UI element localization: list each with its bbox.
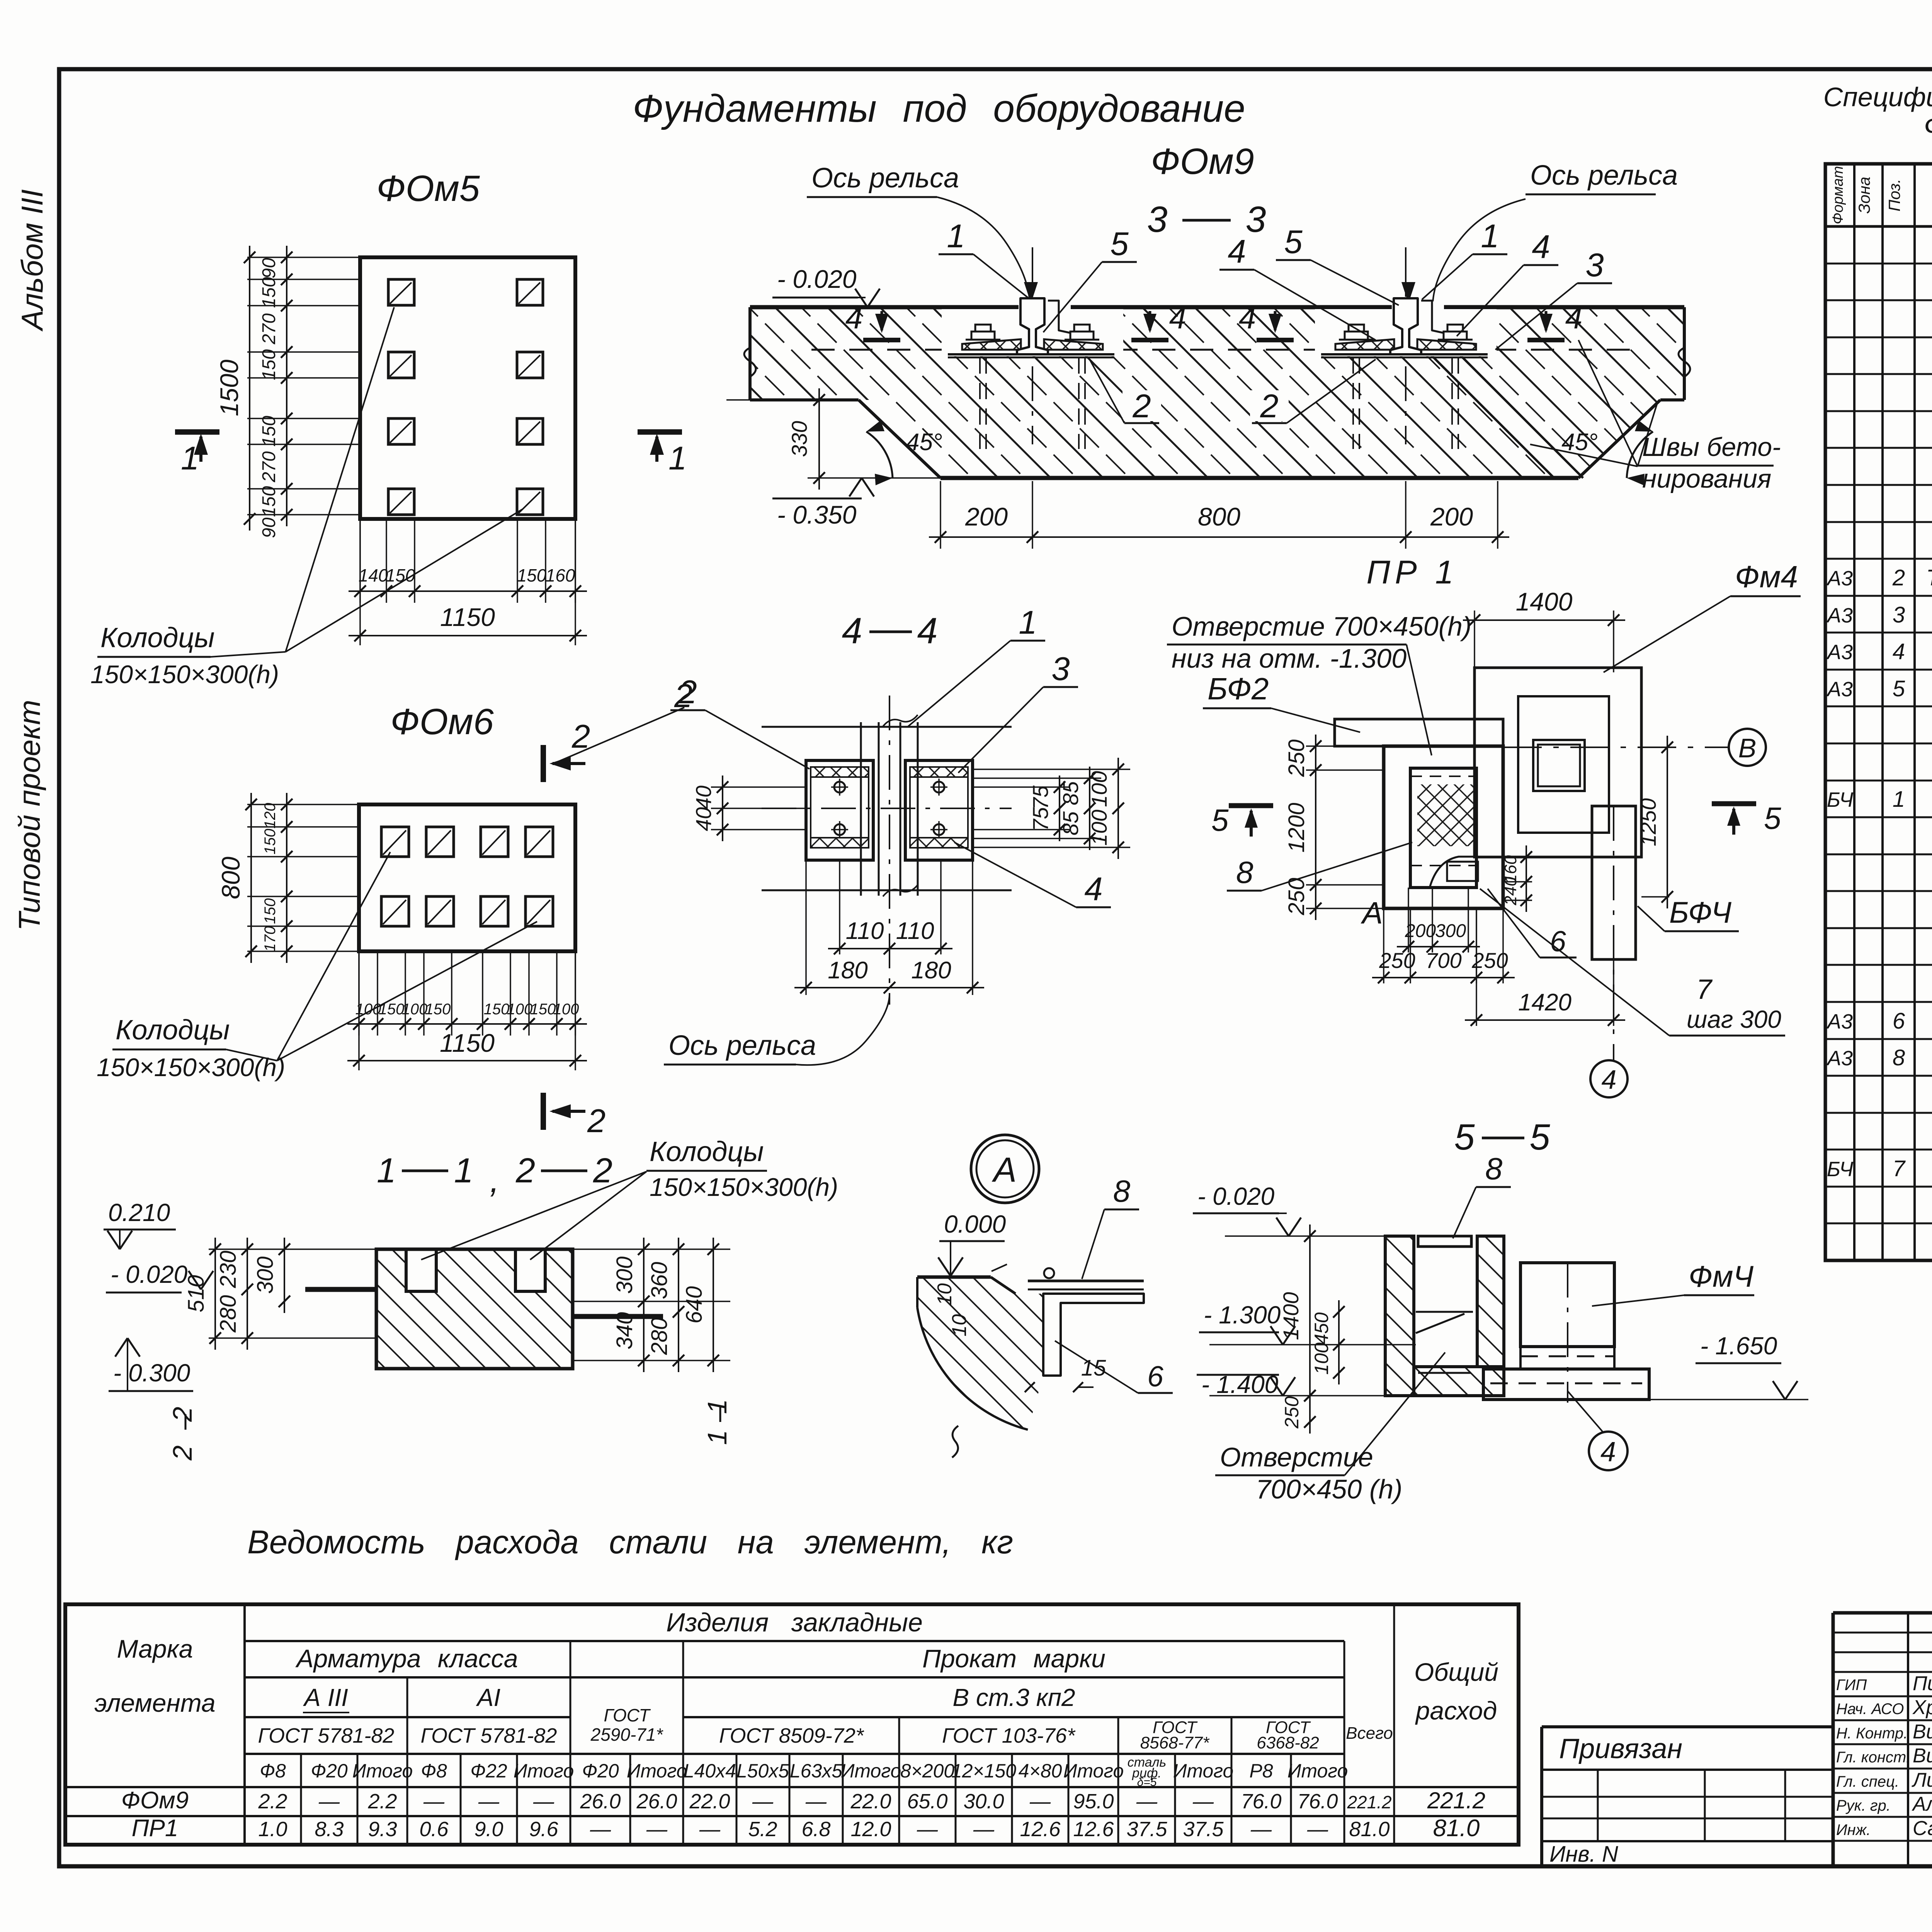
svg-text:Ведомость расхода стали: Ведомость расхода стали на элемент, кг: [247, 1524, 1013, 1561]
svg-text:—: —: [318, 1790, 340, 1813]
svg-text:3: 3: [1051, 651, 1070, 687]
svg-text:300: 300: [612, 1257, 637, 1294]
svg-text:4: 4: [1893, 639, 1905, 664]
svg-text:1: 1: [1893, 787, 1905, 812]
svg-text:1500: 1500: [215, 359, 243, 416]
svg-text:510: 510: [184, 1275, 209, 1313]
svg-text:5: 5: [1454, 1117, 1475, 1158]
svg-text:700×450 (h): 700×450 (h): [1256, 1474, 1402, 1504]
svg-text:150: 150: [262, 898, 279, 924]
svg-text:А: А: [992, 1151, 1017, 1189]
svg-text:Ф20: Ф20: [582, 1760, 619, 1782]
svg-text:7: 7: [1893, 1156, 1906, 1181]
svg-text:—: —: [917, 1818, 938, 1841]
svg-text:В: В: [1738, 733, 1757, 763]
svg-text:9.3: 9.3: [368, 1818, 397, 1841]
svg-text:26.0: 26.0: [636, 1790, 677, 1813]
svg-text:4: 4: [842, 611, 862, 651]
svg-text:5: 5: [1110, 226, 1129, 262]
svg-text:800: 800: [1198, 502, 1240, 531]
svg-text:3: 3: [1893, 602, 1905, 628]
svg-text:Фундаменты под оборудовани: Фундаменты под оборудование: [633, 87, 1245, 130]
svg-text:250: 250: [1379, 948, 1415, 973]
svg-text:В ст.3 кп2: В ст.3 кп2: [952, 1684, 1075, 1711]
svg-text:- 1.650: - 1.650: [1700, 1332, 1777, 1360]
svg-text:2: 2: [515, 1151, 535, 1190]
svg-text:8: 8: [1893, 1045, 1905, 1070]
svg-text:12.0: 12.0: [850, 1818, 891, 1841]
svg-text:1200: 1200: [1284, 803, 1309, 852]
svg-text:Инв. N: Инв. N: [1549, 1842, 1618, 1867]
svg-text:4: 4: [1600, 1437, 1616, 1468]
svg-text:22.0: 22.0: [689, 1790, 730, 1813]
svg-text:А3: А3: [1826, 678, 1853, 701]
svg-text:150: 150: [259, 416, 279, 447]
svg-text:Марка: Марка: [117, 1634, 193, 1663]
svg-text:Швы бето-: Швы бето-: [1642, 432, 1781, 462]
svg-text:81.0: 81.0: [1433, 1815, 1480, 1842]
svg-text:L40х4: L40х4: [684, 1760, 736, 1782]
svg-text:Итого: Итого: [1173, 1760, 1234, 1782]
svg-text:ФОм5: ФОм5: [376, 168, 480, 209]
svg-text:2: 2: [1260, 388, 1278, 425]
svg-text:85: 85: [1058, 811, 1083, 835]
svg-text:81.0: 81.0: [1349, 1818, 1389, 1841]
svg-text:А3: А3: [1826, 567, 1853, 590]
svg-text:низ на отм. -1.300: низ на отм. -1.300: [1172, 643, 1406, 673]
svg-text:6: 6: [1550, 925, 1566, 957]
svg-text:Ф22: Ф22: [470, 1760, 507, 1782]
svg-text:ГИП: ГИП: [1836, 1677, 1867, 1694]
svg-text:Ф8: Ф8: [421, 1760, 447, 1782]
svg-text:160: 160: [546, 565, 575, 585]
svg-text:ГОСТ 5781-82: ГОСТ 5781-82: [421, 1724, 557, 1747]
svg-text:1250: 1250: [1636, 798, 1660, 847]
svg-text:1: 1: [702, 1430, 732, 1445]
svg-text:Итого: Итого: [1287, 1760, 1348, 1782]
svg-text:450: 450: [1311, 1312, 1332, 1345]
svg-text:800: 800: [216, 857, 245, 899]
svg-text:Спецификация фундаментов п: Спецификация фундаментов под оборудовани…: [1823, 82, 1932, 112]
svg-text:4: 4: [1565, 301, 1583, 335]
svg-text:8×200: 8×200: [900, 1760, 955, 1782]
svg-text:12.6: 12.6: [1020, 1818, 1061, 1841]
svg-text:40: 40: [691, 786, 716, 810]
svg-text:БЧ: БЧ: [1827, 788, 1854, 811]
svg-text:ФмЧ: ФмЧ: [1689, 1259, 1753, 1293]
svg-text:1: 1: [377, 1151, 396, 1190]
svg-text:0.210: 0.210: [108, 1199, 170, 1226]
svg-text:БФЧ: БФЧ: [1669, 895, 1731, 929]
svg-text:170: 170: [262, 926, 279, 952]
svg-text:8: 8: [1113, 1174, 1131, 1208]
svg-text:6: 6: [1147, 1360, 1163, 1393]
svg-text:- 0.020: - 0.020: [1197, 1182, 1275, 1210]
svg-text:2590-71*: 2590-71*: [590, 1725, 664, 1745]
svg-text:10: 10: [948, 1314, 971, 1337]
svg-text:2: 2: [167, 1407, 197, 1422]
svg-text:4: 4: [845, 301, 863, 335]
svg-text:Фм4: Фм4: [1735, 560, 1798, 594]
svg-text:85: 85: [1058, 781, 1083, 805]
svg-text:150: 150: [517, 565, 547, 585]
svg-text:ПР1: ПР1: [132, 1815, 179, 1842]
svg-text:37.5: 37.5: [1183, 1818, 1224, 1841]
svg-text:Поз.: Поз.: [1885, 179, 1903, 212]
svg-text:4: 4: [1169, 301, 1187, 335]
svg-text:А3: А3: [1826, 1047, 1853, 1070]
svg-text:Винклер: Винклер: [1913, 1721, 1932, 1743]
svg-text:150×150×300(h): 150×150×300(h): [97, 1053, 285, 1082]
svg-text:Рук. гр.: Рук. гр.: [1836, 1797, 1891, 1814]
svg-text:А3: А3: [1826, 1010, 1853, 1033]
svg-text:А3: А3: [1826, 641, 1853, 664]
svg-text:Отверстие 700×450(h): Отверстие 700×450(h): [1172, 611, 1471, 641]
svg-text:100: 100: [1311, 1342, 1332, 1375]
svg-text:Формат: Формат: [1830, 166, 1846, 224]
svg-text:δ=5: δ=5: [1137, 1776, 1157, 1789]
svg-text:Хрупало: Хрупало: [1912, 1696, 1932, 1719]
svg-text:—: —: [752, 1790, 774, 1813]
svg-text:Ось рельса: Ось рельса: [668, 1030, 816, 1061]
svg-text:140: 140: [359, 565, 388, 585]
svg-text:расход: расход: [1415, 1696, 1497, 1725]
svg-text:100: 100: [402, 1001, 428, 1018]
svg-text:,: ,: [490, 1161, 499, 1200]
svg-text:А: А: [1361, 896, 1383, 930]
svg-text:110: 110: [896, 918, 934, 944]
svg-text:26.0: 26.0: [580, 1790, 621, 1813]
svg-text:Изделия закладные: Изделия закладные: [666, 1608, 923, 1637]
svg-text:ГОСТ 103-76*: ГОСТ 103-76*: [942, 1724, 1076, 1747]
svg-text:ФОм9: ФОм9: [121, 1787, 189, 1814]
svg-text:Ф20: Ф20: [311, 1760, 348, 1782]
svg-text:ТП: ТП: [1926, 565, 1932, 590]
svg-text:12×150: 12×150: [951, 1760, 1016, 1782]
svg-text:2.2: 2.2: [367, 1790, 397, 1813]
svg-text:3: 3: [1147, 199, 1168, 240]
svg-text:110: 110: [846, 918, 884, 944]
svg-text:230: 230: [216, 1251, 241, 1289]
svg-text:Колодцы: Колодцы: [650, 1136, 764, 1167]
svg-text:Итого: Итого: [514, 1760, 574, 1782]
svg-text:БЧ: БЧ: [1827, 1158, 1854, 1181]
svg-text:12.6: 12.6: [1073, 1818, 1114, 1841]
svg-text:4: 4: [1228, 233, 1246, 270]
svg-text:45°: 45°: [906, 429, 942, 456]
svg-text:280: 280: [216, 1295, 241, 1333]
svg-text:0.6: 0.6: [419, 1818, 449, 1841]
svg-text:5.2: 5.2: [748, 1818, 777, 1841]
svg-text:Пивторак: Пивторак: [1913, 1672, 1932, 1695]
svg-text:- 0.020: - 0.020: [111, 1260, 188, 1288]
svg-text:1: 1: [668, 440, 687, 477]
svg-text:Лисичкин: Лисичкин: [1912, 1769, 1932, 1791]
svg-text:шаг 300: шаг 300: [1687, 1005, 1781, 1033]
svg-text:280: 280: [647, 1318, 672, 1355]
svg-text:Ось рельса: Ось рельса: [811, 163, 959, 194]
svg-text:—: —: [1307, 1818, 1328, 1841]
svg-text:—: —: [1192, 1790, 1214, 1813]
svg-text:90: 90: [259, 258, 279, 279]
svg-text:8: 8: [1236, 855, 1253, 889]
svg-text:150: 150: [259, 277, 279, 308]
svg-text:8: 8: [1485, 1151, 1503, 1186]
svg-text:4: 4: [1532, 229, 1550, 265]
svg-text:2: 2: [1892, 565, 1905, 590]
svg-text:L50х5: L50х5: [736, 1760, 789, 1782]
svg-text:Всего: Всего: [1346, 1724, 1393, 1743]
svg-text:221.2: 221.2: [1427, 1787, 1485, 1813]
svg-text:100: 100: [1087, 771, 1111, 807]
svg-text:Ф8: Ф8: [260, 1760, 286, 1782]
svg-text:640: 640: [682, 1286, 707, 1324]
svg-text:- 0.350: - 0.350: [777, 500, 857, 529]
svg-text:—: —: [478, 1790, 500, 1813]
svg-text:4×80: 4×80: [1019, 1760, 1062, 1782]
svg-text:1: 1: [181, 440, 199, 477]
svg-text:150: 150: [379, 1001, 405, 1018]
svg-text:АI: АI: [476, 1684, 501, 1711]
svg-text:1: 1: [1481, 218, 1499, 255]
svg-text:6368-82: 6368-82: [1257, 1733, 1319, 1752]
svg-text:221.2: 221.2: [1347, 1792, 1391, 1812]
svg-text:1150: 1150: [440, 1029, 495, 1057]
svg-text:2.2: 2.2: [258, 1790, 287, 1813]
svg-text:700: 700: [1425, 948, 1461, 973]
svg-text:180: 180: [828, 957, 867, 984]
svg-text:75: 75: [1028, 807, 1053, 831]
svg-text:5: 5: [1530, 1117, 1551, 1158]
svg-text:—: —: [699, 1818, 721, 1841]
svg-text:100: 100: [1087, 810, 1111, 845]
svg-text:нирования: нирования: [1642, 464, 1771, 493]
svg-text:15: 15: [1081, 1355, 1106, 1381]
svg-text:ГОСТ 8509-72*: ГОСТ 8509-72*: [719, 1724, 864, 1747]
svg-text:4: 4: [917, 611, 938, 651]
svg-text:5: 5: [1284, 224, 1303, 260]
svg-text:76.0: 76.0: [1241, 1790, 1281, 1813]
svg-text:ГОСТ 5781-82: ГОСТ 5781-82: [258, 1724, 395, 1747]
svg-text:5: 5: [1211, 803, 1229, 837]
svg-text:Общий: Общий: [1414, 1658, 1498, 1686]
svg-text:5: 5: [1893, 676, 1905, 701]
svg-text:Р8: Р8: [1249, 1760, 1273, 1782]
svg-text:—: —: [423, 1790, 445, 1813]
svg-text:ФОм6: ФОм6: [390, 701, 494, 742]
svg-text:150: 150: [259, 486, 279, 517]
svg-text:L63х5: L63х5: [790, 1760, 842, 1782]
svg-text:250: 250: [1284, 878, 1309, 916]
svg-text:250: 250: [1281, 1396, 1303, 1429]
svg-text:150: 150: [262, 829, 279, 855]
svg-text:300: 300: [253, 1257, 278, 1294]
svg-text:270: 270: [259, 451, 279, 483]
svg-text:3: 3: [1585, 247, 1604, 284]
svg-text:—: —: [1029, 1790, 1051, 1813]
svg-text:—: —: [646, 1818, 668, 1841]
svg-text:150: 150: [530, 1001, 556, 1018]
svg-text:340: 340: [612, 1312, 637, 1350]
svg-text:Итого: Итого: [627, 1760, 687, 1782]
svg-text:90: 90: [259, 517, 279, 538]
svg-text:200: 200: [1430, 502, 1473, 531]
svg-text:37.5: 37.5: [1126, 1818, 1167, 1841]
svg-text:Нач. АСО: Нач. АСО: [1836, 1701, 1904, 1718]
svg-text:- 0.300: - 0.300: [113, 1359, 190, 1387]
svg-text:120: 120: [262, 803, 279, 829]
svg-text:Итого: Итого: [352, 1760, 413, 1782]
svg-text:А III: А III: [303, 1684, 348, 1711]
svg-text:1400: 1400: [1279, 1292, 1303, 1340]
svg-text:Инж.: Инж.: [1836, 1821, 1871, 1838]
svg-text:А3: А3: [1826, 604, 1853, 627]
svg-text:5: 5: [1764, 801, 1781, 835]
svg-text:150×150×300(h): 150×150×300(h): [90, 660, 279, 689]
svg-text:8568-77*: 8568-77*: [1140, 1733, 1210, 1752]
svg-text:Ось рельса: Ось рельса: [1530, 160, 1678, 191]
svg-text:1: 1: [1019, 604, 1037, 641]
svg-text:Колодцы: Колодцы: [100, 622, 215, 653]
svg-text:Привязан: Привязан: [1559, 1733, 1682, 1764]
svg-text:300: 300: [1435, 921, 1466, 941]
svg-text:—: —: [533, 1790, 554, 1813]
svg-text:6.8: 6.8: [801, 1818, 830, 1841]
svg-text:75: 75: [1028, 785, 1053, 810]
svg-text:Арматура класса: Арматура класса: [295, 1644, 518, 1673]
svg-text:- 1.300: - 1.300: [1204, 1301, 1281, 1329]
svg-text:—: —: [805, 1790, 827, 1813]
svg-text:22.0: 22.0: [850, 1790, 891, 1813]
svg-text:—: —: [1136, 1790, 1158, 1813]
svg-text:—: —: [1250, 1818, 1272, 1841]
svg-text:1: 1: [947, 218, 965, 255]
svg-text:2: 2: [593, 1151, 612, 1190]
svg-text:1150: 1150: [440, 603, 495, 631]
svg-text:2: 2: [167, 1446, 197, 1461]
svg-text:1420: 1420: [1518, 989, 1571, 1016]
svg-text:1: 1: [702, 1399, 732, 1414]
svg-text:4: 4: [1084, 871, 1102, 908]
svg-text:200: 200: [1405, 921, 1436, 941]
svg-text:ФОм9: ФОм9: [1151, 141, 1254, 182]
svg-text:0.000: 0.000: [944, 1210, 1006, 1238]
svg-text:2: 2: [678, 674, 697, 711]
svg-text:4: 4: [1602, 1065, 1617, 1095]
svg-text:40: 40: [691, 807, 716, 831]
svg-text:Гл. конст.: Гл. конст.: [1836, 1749, 1910, 1766]
svg-text:200: 200: [965, 502, 1008, 531]
svg-text:элемента: элемента: [94, 1689, 215, 1717]
svg-text:1: 1: [454, 1151, 473, 1190]
svg-text:30.0: 30.0: [963, 1790, 1004, 1813]
svg-text:150×150×300(h): 150×150×300(h): [650, 1173, 838, 1201]
svg-text:Винклер: Винклер: [1913, 1745, 1932, 1767]
svg-text:Итого: Итого: [841, 1760, 901, 1782]
svg-text:270: 270: [259, 313, 279, 345]
svg-text:250: 250: [1284, 740, 1309, 777]
svg-text:Гл. спец.: Гл. спец.: [1836, 1773, 1899, 1790]
svg-text:Прокат марки: Прокат марки: [922, 1644, 1105, 1673]
svg-text:8.3: 8.3: [315, 1818, 344, 1841]
svg-text:ФОм5, ФОм6 , ФОм9 приямка: ФОм5, ФОм6 , ФОм9 приямка ПР1: [1924, 110, 1932, 142]
svg-text:240: 240: [1501, 877, 1520, 906]
svg-text:Альбом III: Альбом III: [15, 189, 49, 332]
svg-text:БФ2: БФ2: [1207, 672, 1269, 706]
svg-text:9.0: 9.0: [474, 1818, 503, 1841]
svg-text:180: 180: [911, 957, 951, 984]
svg-text:- 0.020: - 0.020: [777, 265, 857, 293]
svg-text:150: 150: [259, 349, 279, 380]
svg-text:Типовой проект: Типовой проект: [12, 700, 46, 931]
svg-text:1.0: 1.0: [258, 1818, 287, 1841]
svg-text:65.0: 65.0: [907, 1790, 947, 1813]
svg-text:4: 4: [1239, 301, 1256, 335]
svg-text:Сапрошина: Сапрошина: [1913, 1817, 1932, 1840]
svg-text:9.6: 9.6: [529, 1818, 558, 1841]
svg-text:2: 2: [587, 1103, 605, 1139]
svg-text:76.0: 76.0: [1297, 1790, 1338, 1813]
svg-text:ГОСТ: ГОСТ: [604, 1705, 651, 1725]
svg-text:—: —: [973, 1818, 995, 1841]
svg-text:150: 150: [425, 1001, 451, 1018]
svg-text:Н. Контр.: Н. Контр.: [1836, 1725, 1908, 1742]
svg-text:1400: 1400: [1516, 587, 1573, 616]
svg-text:Алехова: Алехова: [1912, 1793, 1932, 1815]
svg-text:7: 7: [1696, 974, 1713, 1005]
svg-text:—: —: [590, 1818, 611, 1841]
svg-text:Колодцы: Колодцы: [116, 1015, 230, 1046]
svg-text:6: 6: [1893, 1009, 1905, 1034]
svg-text:3: 3: [1246, 199, 1266, 240]
svg-text:2: 2: [1132, 388, 1151, 425]
svg-text:360: 360: [647, 1262, 672, 1299]
svg-text:100: 100: [507, 1001, 533, 1018]
svg-text:330: 330: [787, 421, 811, 457]
svg-text:10: 10: [934, 1283, 956, 1306]
svg-text:Зона: Зона: [1855, 177, 1873, 214]
svg-text:ПР 1: ПР 1: [1366, 554, 1458, 591]
svg-text:Итого: Итого: [1063, 1760, 1124, 1782]
svg-text:150: 150: [484, 1001, 510, 1018]
svg-text:95.0: 95.0: [1073, 1790, 1114, 1813]
